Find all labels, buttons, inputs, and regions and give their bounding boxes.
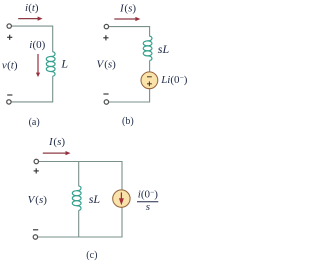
svg-text:(0): (0) [33,39,46,51]
svg-text:(t): (t) [28,2,39,14]
svg-text:sL: sL [158,42,170,56]
svg-text:(0−): (0−) [170,73,187,86]
svg-text:(s): (s) [104,58,116,70]
svg-text:(c): (c) [86,250,97,261]
svg-text:sL: sL [89,192,101,206]
svg-text:(a): (a) [29,117,40,128]
svg-text:(s): (s) [35,194,47,206]
svg-text:s: s [146,201,150,213]
svg-text:Li: Li [160,74,170,86]
svg-text:(0−): (0−) [141,187,158,200]
svg-text:(t): (t) [7,60,18,72]
svg-text:(s): (s) [124,3,136,15]
svg-text:L: L [60,56,68,70]
svg-text:(s): (s) [53,136,65,148]
svg-text:(b): (b) [122,116,134,127]
